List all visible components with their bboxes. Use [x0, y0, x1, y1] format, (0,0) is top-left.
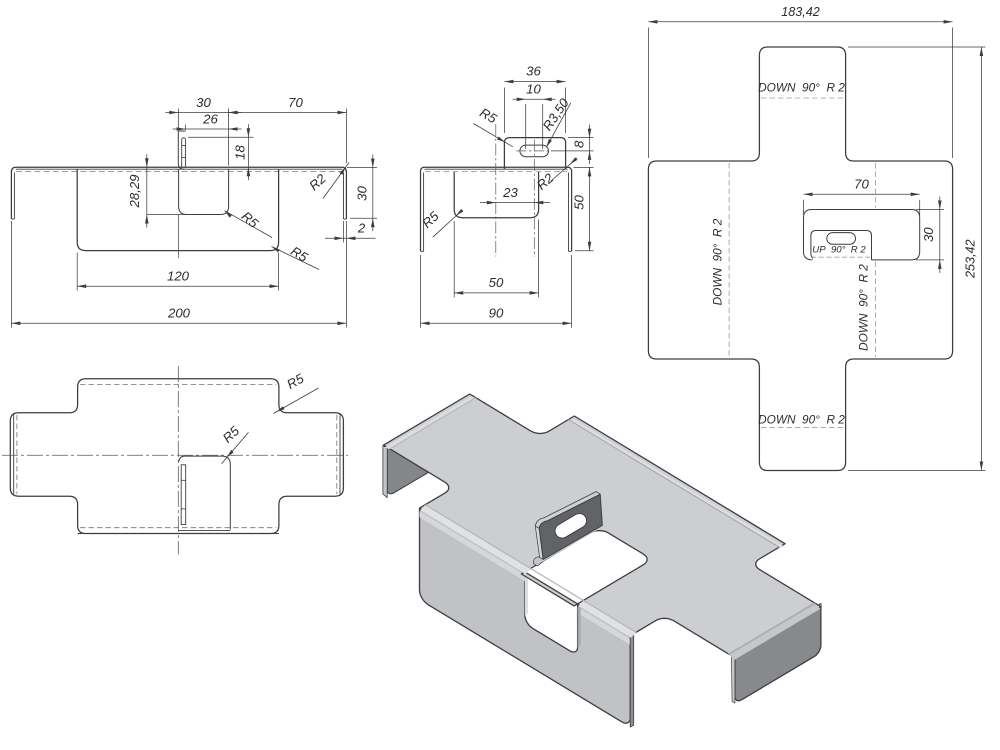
side view: dim 23: [480, 202, 550, 204]
top view: cross outline: [10, 379, 343, 534]
flat pattern: top bend line dashed: [761, 97, 844, 99]
front view: ext for 120 right: [278, 253, 280, 291]
flat pattern: tick for 253,42 top: [848, 46, 986, 48]
3D left flange outer edge sliver: [383, 445, 387, 498]
svg-text:50: 50: [571, 195, 586, 210]
front view: line below notch: [178, 215, 180, 259]
flat pattern: tick for 30 top: [916, 209, 944, 211]
svg-text:DOWN 90° R 2: DOWN 90° R 2: [857, 264, 871, 351]
flat pattern: ext for 183,42 left: [647, 28, 649, 159]
flat pattern: tab bend line: [811, 256, 872, 258]
svg-text:253,42: 253,42: [964, 239, 978, 279]
flat pattern: dim 183,42: [648, 21, 952, 23]
3D top plate cross face with hole: [384, 394, 821, 658]
svg-text:DOWN 90° R 2: DOWN 90° R 2: [711, 218, 725, 305]
svg-text:183,42: 183,42: [781, 5, 820, 19]
flat pattern: dim 30: [939, 197, 941, 273]
svg-text:2: 2: [357, 221, 366, 236]
flat pattern: cross outline: [648, 47, 952, 471]
3D web notch right edge sliver: [578, 605, 581, 648]
svg-text:8: 8: [571, 140, 586, 148]
3D plate back bend band: [568, 419, 785, 547]
side view: dim 8: [589, 125, 591, 164]
side view: dim 36: [504, 81, 565, 83]
svg-text:200: 200: [167, 305, 191, 320]
front view: ext for 200 right: [345, 221, 347, 328]
front view: leader R5 at web corner: [272, 247, 320, 270]
3D front web right edge face: [630, 635, 634, 728]
flat pattern: bottom bend line dashed: [761, 427, 844, 429]
side view: right flange outer line: [571, 171, 573, 251]
side view: web profile: [454, 172, 538, 218]
3D tab left edge sliver: [535, 526, 543, 559]
front view: dim 30 (right): [372, 155, 374, 232]
front view: ext line for 30 left: [177, 109, 179, 128]
flat pattern: tab obround slot: [827, 233, 856, 245]
front view: left flange inner line: [13, 173, 15, 220]
flat pattern: ext for 183,42 right: [952, 28, 954, 159]
3D right flange outer face: [735, 604, 821, 701]
front view: dim 28,29: [146, 154, 148, 227]
front view: ext line for 70 right: [345, 109, 347, 164]
3D plate front bend tangent line: [425, 504, 637, 633]
top view: hole outline: [179, 456, 231, 529]
3D tab bottom bend filler: [536, 525, 602, 563]
3D right flange front edge sliver: [731, 655, 735, 704]
svg-text:30: 30: [196, 95, 211, 110]
svg-text:50: 50: [489, 275, 504, 290]
front view: bend tangent dashed line: [16, 171, 342, 173]
front view: web left edge: [77, 170, 278, 251]
flat pattern: right bend line dashed lower: [874, 262, 876, 358]
svg-text:30: 30: [921, 227, 936, 242]
svg-text:DOWN 90° R 2: DOWN 90° R 2: [758, 413, 845, 427]
front view: ext for 200 left: [10, 221, 12, 328]
side view: tab flat profile: [504, 138, 565, 169]
side view: leader R2 flange corner: [551, 158, 577, 181]
top view: right flange inner line: [339, 414, 341, 495]
front view: leader R5 at notch corner: [225, 211, 273, 238]
svg-text:90: 90: [489, 305, 504, 320]
flat pattern: right bend line dashed upper: [874, 163, 876, 208]
side view: dim 50 (right): [589, 167, 591, 250]
front view: dim 18: [247, 124, 249, 180]
svg-text:26: 26: [202, 112, 218, 127]
3D plate back bend tangent line: [568, 419, 780, 547]
front view: tick for right 30 top: [347, 167, 377, 169]
front view: tab slot upper edge: [182, 145, 186, 147]
3D plate right bend tangent line: [728, 603, 815, 655]
side view: leader R5 tab corner: [474, 124, 513, 147]
side view: slot horizontal centerline: [517, 150, 553, 152]
svg-text:DOWN 90° R 2: DOWN 90° R 2: [758, 81, 845, 95]
front view: tab inner profile: [182, 138, 186, 167]
3D front web outer face: [420, 509, 631, 723]
side view: dim 10: [513, 98, 556, 100]
flat pattern: tick for 30 bottom: [916, 259, 944, 261]
svg-text:18: 18: [233, 145, 248, 160]
flat pattern: ext for 70 right: [919, 200, 921, 216]
front view: web notch box: [179, 170, 229, 215]
side view: bend tangent dashed line: [425, 171, 567, 173]
svg-text:36: 36: [526, 64, 541, 79]
front view: top plate edge (inner line): [16, 168, 342, 170]
3D front web top highlight band right part: [578, 607, 631, 645]
side view: left flange outer line: [420, 171, 422, 251]
front view: dim 30 (top): [165, 112, 241, 114]
svg-text:30: 30: [355, 186, 370, 201]
flat pattern: tab outline: [811, 231, 872, 260]
svg-text:70: 70: [288, 95, 303, 110]
3D plate front bend band: [420, 504, 531, 574]
front view: left flange end cap: [11, 218, 14, 220]
side view: ext for 90 right: [571, 255, 573, 328]
top view: right bend dashed: [336, 415, 338, 494]
top view: left bend dashed: [16, 415, 18, 494]
top view: bottom web far edge: [78, 533, 279, 535]
side view: ext for 36 left: [503, 88, 505, 134]
front view: dim 120: [77, 285, 278, 287]
side view: right flange inner line: [568, 173, 570, 252]
3D plate left bend band: [384, 397, 476, 450]
side view: left flange inner line: [423, 173, 425, 252]
front view: right flange outer line: [345, 171, 347, 219]
3D tab bottom-left bend bulge: [534, 557, 545, 566]
side view: tick for 8 bottom: [551, 150, 594, 152]
side view: ext for 90 left: [420, 255, 422, 328]
front view: ext for 2 left: [343, 221, 345, 243]
3D right flange tangent highlight: [735, 604, 821, 657]
side view: tick for 50 top: [574, 166, 594, 168]
front view: right flange inner line: [343, 173, 345, 220]
3D plate right bend band: [728, 603, 820, 660]
side view: dim 90: [421, 322, 572, 324]
top view: tab slot tick lower: [181, 508, 186, 510]
flat pattern: ext for 70 left: [803, 200, 805, 215]
front view: top plate edge (outer): [11, 167, 346, 172]
side view: ext for 36 right: [565, 88, 567, 134]
side view: ext for 10 left: [525, 104, 527, 149]
side view: tick for 50 bottom: [575, 250, 594, 252]
top view: leader R5 outer corner: [274, 388, 319, 414]
side view: left flange end cap: [421, 250, 424, 252]
3D tab front face: [539, 494, 602, 559]
side view: web vertical centerline: [495, 124, 497, 257]
side view: dim 50 (bottom): [454, 292, 538, 294]
flat pattern: left bend line dashed: [728, 163, 730, 357]
side view: top plate edge (inner line): [425, 168, 568, 170]
3D tab top edge sliver: [535, 492, 600, 529]
svg-text:28,29: 28,29: [127, 174, 142, 209]
top view: bottom bend dashed: [80, 527, 277, 529]
3D web notch left edge sliver: [525, 573, 528, 616]
front view: right flange end cap: [344, 218, 347, 220]
front view: dim 70 (top): [229, 112, 347, 114]
front view: tab outer profile: [178, 131, 185, 169]
front view: dim 26: [173, 128, 242, 130]
flat pattern: dim 253,42: [980, 47, 982, 471]
top view: leader R5 hole corner: [222, 432, 249, 463]
side view: leader R3,50: [546, 103, 571, 147]
side view: ext for 50 left: [453, 221, 455, 297]
svg-text:23: 23: [502, 185, 518, 200]
flat pattern: hole outline: [804, 210, 920, 260]
svg-text:120: 120: [167, 268, 190, 283]
top view: tab slot tick upper: [181, 479, 186, 481]
top view: top bend dashed: [80, 384, 277, 386]
front view: left flange outer line: [10, 171, 12, 219]
front view: ext line for 18: [188, 136, 254, 138]
front view: ext for 120 left: [76, 253, 78, 291]
side view: top plate edge (outer): [421, 167, 572, 171]
side view: leader R5 web corner: [433, 210, 463, 237]
top view: tab edge-on rectangle: [181, 465, 186, 525]
front view: tab slot lower edge: [182, 157, 186, 159]
side view: ext for 10 right: [542, 104, 544, 149]
side view: obround slot: [520, 145, 549, 157]
svg-text:UP 90° R 2: UP 90° R 2: [812, 245, 866, 256]
front view: dim 200: [11, 322, 346, 324]
front view: dim 2: [325, 237, 376, 239]
3D plate left bend tangent line: [389, 397, 476, 449]
3D left flange inner face: [387, 396, 473, 494]
front view: ext line for 26: [185, 125, 187, 131]
top view: vertical centerline: [177, 366, 179, 555]
front view: leader R2 right corner: [323, 163, 349, 199]
top view: hole bottom edge: [178, 529, 230, 531]
front view: ext tick for 28,29: [147, 214, 186, 216]
side view: ext for 50 right2: [538, 220, 540, 298]
top view: left flange inner line: [13, 414, 15, 495]
3D front web top highlight band: [420, 511, 525, 581]
front view: tick for right 30 bottom: [350, 217, 377, 219]
top view: horizontal centerline: [2, 454, 348, 456]
svg-text:70: 70: [854, 176, 869, 191]
3D tab obround slot: [555, 513, 587, 538]
flat pattern: dim 70: [804, 193, 920, 195]
flat pattern: tick for 253,42 bottom: [848, 470, 986, 472]
side view: right flange end cap: [569, 250, 572, 252]
side view: slot vertical centerline: [533, 140, 535, 258]
3D plate front bend band right: [578, 600, 636, 638]
side view: tick for 8 top: [568, 137, 594, 139]
svg-text:10: 10: [526, 81, 541, 96]
front view: ext line for 30/70 middle: [228, 109, 230, 166]
